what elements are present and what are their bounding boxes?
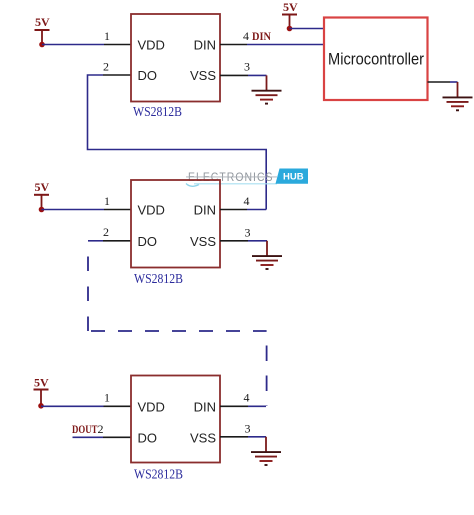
pin stub U2 pin3 VSS [220, 240, 248, 242]
svg-text:4: 4 [243, 29, 249, 43]
svg-text:1: 1 [104, 29, 110, 43]
chip U1 WS2812B [131, 14, 220, 102]
microcontroller U4 [324, 18, 428, 101]
wire 5V to U1 VDD [42, 44, 104, 46]
svg-text:Microcontroller: Microcontroller [328, 50, 424, 69]
svg-text:VSS: VSS [190, 430, 216, 445]
svg-text:2: 2 [103, 60, 109, 74]
wire U1 VSS to ground [248, 74, 267, 76]
wire U1 DIN to microcontroller [247, 44, 324, 46]
svg-text:VDD: VDD [138, 399, 165, 414]
svg-text:HUB: HUB [283, 172, 304, 183]
svg-text:DIN: DIN [194, 399, 216, 414]
ground GND3 [252, 241, 282, 269]
power 5V P4 [34, 376, 50, 409]
dashed wire vertical to U3 DIN [266, 331, 268, 406]
wire DOUT [73, 436, 104, 438]
pin stub U1 pin1 [104, 44, 131, 46]
ground GND1 [252, 75, 282, 103]
svg-text:WS2812B: WS2812B [134, 272, 183, 287]
ground GND2 [443, 82, 473, 110]
chip U3 WS2812B [131, 376, 220, 463]
watermark Electronics Hub [186, 169, 308, 187]
pin stub U3 pin3 VSS [220, 436, 248, 438]
pin stub U2 pin1 [104, 209, 131, 211]
pin stub U2 pin4 DIN [220, 209, 247, 211]
svg-text:DIN: DIN [252, 29, 271, 43]
wire 5V to microcontroller [290, 28, 325, 30]
dashed wire U2 DO to U3 DIN [87, 241, 89, 331]
svg-text:DIN: DIN [194, 203, 216, 218]
svg-text:2: 2 [103, 225, 109, 239]
wire microcontroller to ground [428, 81, 451, 83]
ground GND4 [251, 437, 281, 465]
pin stub U2 pin2 DO [103, 240, 131, 242]
wire 5V to U2 VDD [42, 209, 105, 211]
svg-text:3: 3 [245, 422, 251, 436]
wire U2 DIN stub join [247, 209, 266, 211]
svg-text:5V: 5V [35, 15, 50, 29]
svg-text:3: 3 [245, 226, 251, 240]
svg-text:2: 2 [98, 422, 104, 436]
chip U2 WS2812B [131, 180, 220, 268]
power 5V P2 [282, 0, 298, 31]
pin stub U3 pin4 DIN [220, 405, 248, 407]
pin stub U1 pin3 VSS [220, 74, 248, 76]
svg-text:VSS: VSS [190, 68, 216, 83]
svg-text:DO: DO [138, 68, 158, 83]
wire 5V to U3 VDD [41, 405, 104, 407]
svg-text:VSS: VSS [190, 234, 216, 249]
wire U2 VSS to ground [248, 240, 267, 242]
svg-text:DO: DO [138, 234, 158, 249]
power 5V P1 [35, 15, 51, 47]
svg-text:DO: DO [138, 430, 158, 445]
pin stub U3 pin2 DO [103, 436, 131, 438]
wire U3 VSS to ground [248, 436, 266, 438]
svg-text:5V: 5V [35, 180, 50, 194]
wire U3 DIN join [248, 405, 266, 407]
wire U1 DO down [88, 75, 267, 210]
svg-text:1: 1 [104, 194, 110, 208]
power 5V P3 [34, 180, 50, 212]
svg-text:VDD: VDD [138, 203, 165, 218]
svg-text:1: 1 [104, 391, 110, 405]
svg-text:WS2812B: WS2812B [134, 468, 183, 483]
svg-text:3: 3 [244, 60, 250, 74]
pin stub U1 pin4 DIN [220, 44, 247, 46]
svg-text:5V: 5V [283, 0, 298, 14]
svg-text:DIN: DIN [194, 38, 216, 53]
dashed wire horizontal [91, 330, 267, 332]
pin stub U1 pin2 DO [103, 74, 131, 76]
svg-text:4: 4 [244, 391, 250, 405]
pin stub U3 pin1 [104, 405, 132, 407]
svg-text:VDD: VDD [138, 38, 165, 53]
svg-text:WS2812B: WS2812B [133, 105, 182, 120]
svg-text:DOUT: DOUT [72, 422, 98, 436]
svg-text:5V: 5V [34, 376, 49, 390]
wire U2 DO short [88, 240, 103, 242]
svg-text:4: 4 [244, 194, 250, 208]
